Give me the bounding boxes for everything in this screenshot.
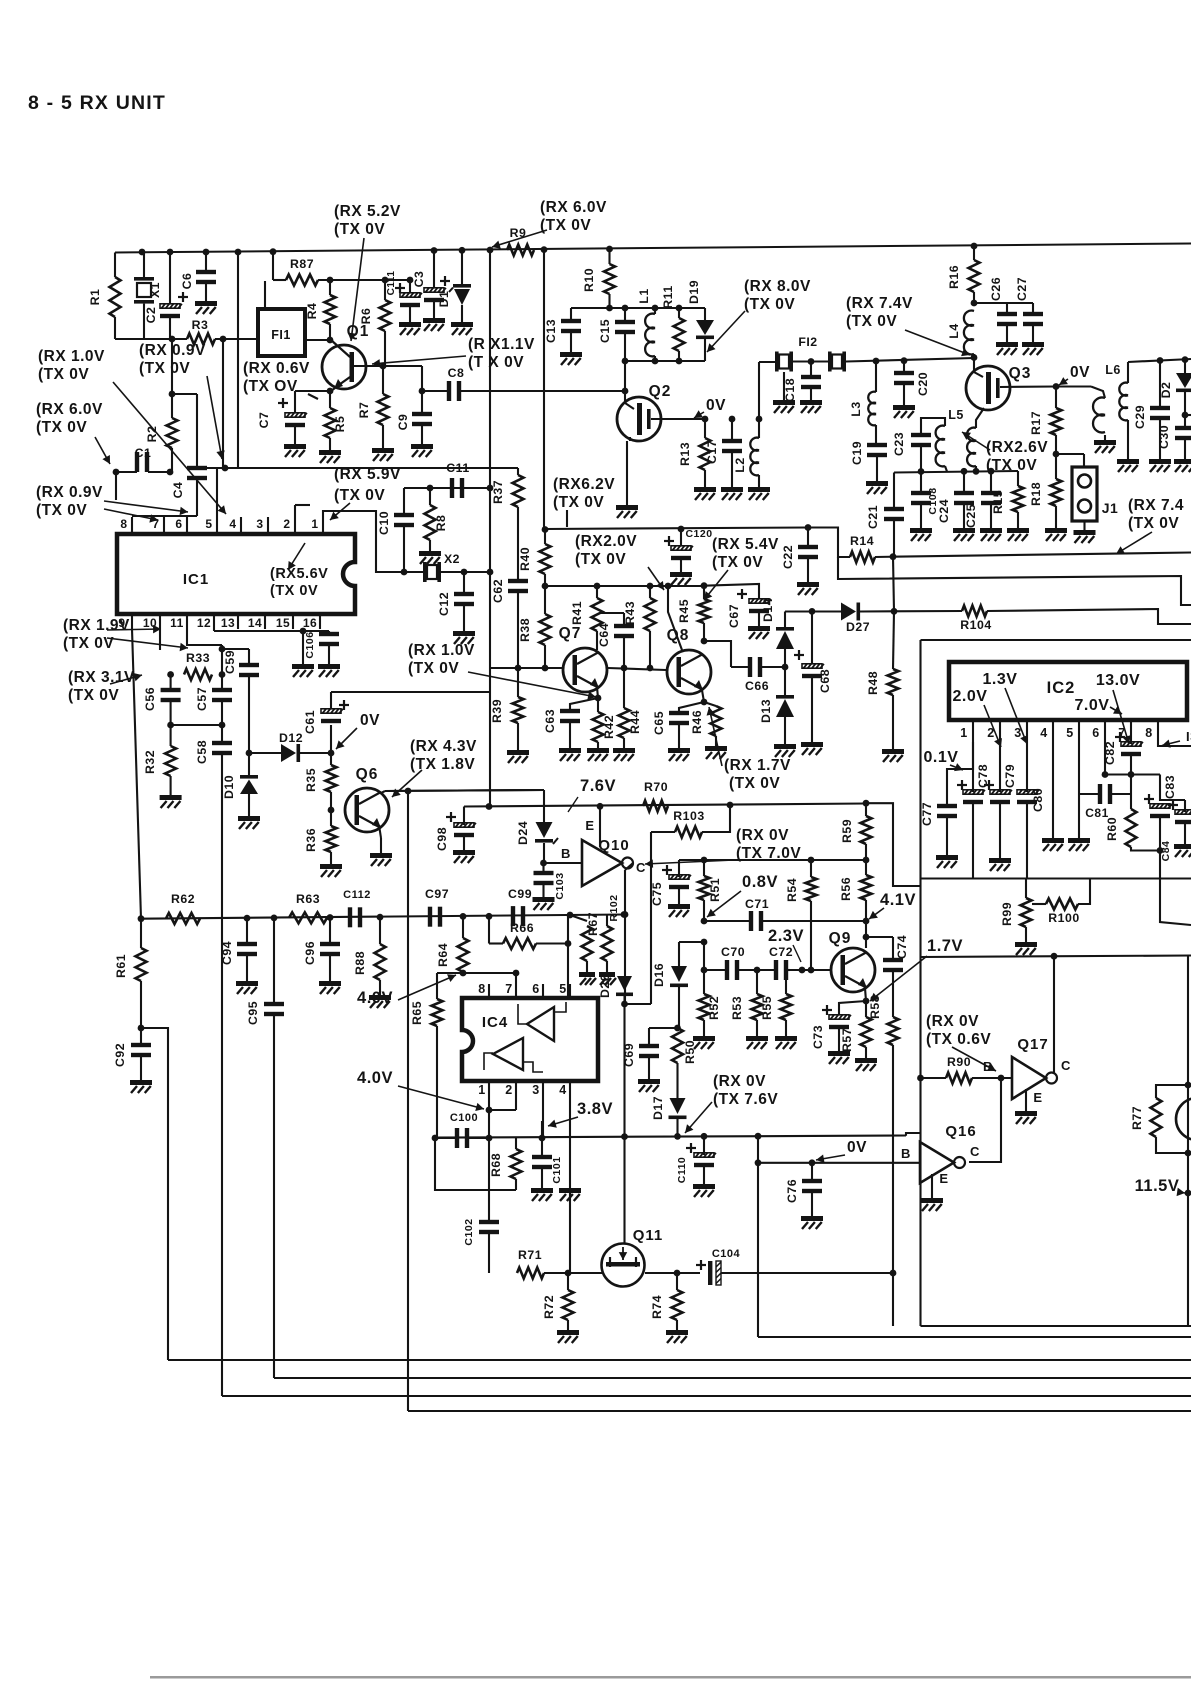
wire C66 feed — [704, 641, 731, 667]
svg-text:Q6: Q6 — [356, 766, 379, 783]
svg-text:R51: R51 — [708, 878, 722, 902]
capacitor C98 — [463, 807, 465, 826]
svg-text:R59: R59 — [840, 819, 854, 843]
capacitor C108 — [920, 472, 922, 494]
svg-text:R56: R56 — [839, 877, 853, 901]
node C-down mid — [622, 911, 629, 918]
svg-text:L1: L1 — [637, 288, 651, 303]
resistor R7 — [382, 366, 384, 394]
svg-text:R87: R87 — [290, 257, 314, 271]
svg-text:(RX 0V: (RX 0V — [926, 1013, 979, 1030]
svg-text:3: 3 — [256, 517, 263, 531]
wire rail stub 238 — [237, 252, 239, 467]
node L1 top — [652, 305, 659, 312]
capacitor C104 — [696, 1264, 706, 1266]
svg-text:L6: L6 — [1105, 363, 1121, 377]
svg-text:C106: C106 — [304, 631, 316, 658]
resistor R44 — [623, 668, 625, 708]
svg-text:(RX 1.0V: (RX 1.0V — [408, 642, 475, 659]
capacitor C111 — [407, 277, 414, 284]
svg-text:R88: R88 — [353, 951, 367, 975]
capacitor C29 — [1157, 357, 1164, 364]
svg-text:C4: C4 — [171, 482, 185, 499]
svg-text:0V: 0V — [706, 397, 726, 414]
capacitor C4 — [196, 394, 198, 468]
node C66 corner — [701, 638, 708, 645]
filter FI1 — [258, 309, 305, 356]
node Q7 emitter — [595, 695, 602, 702]
wire Q11 right — [645, 1272, 700, 1274]
svg-text:R103: R103 — [673, 809, 704, 823]
node R54 bottom — [808, 967, 815, 974]
capacitor C96 — [329, 918, 331, 945]
svg-text:C82: C82 — [1103, 741, 1117, 765]
svg-text:(RX 1.9V: (RX 1.9V — [63, 617, 130, 634]
svg-text:C6: C6 — [180, 273, 194, 290]
svg-text:IC2: IC2 — [1047, 679, 1076, 697]
IC IC4 box — [462, 998, 598, 1081]
capacitor C67 — [703, 584, 705, 587]
wire Q3 drain — [976, 408, 984, 428]
resistor R88 — [379, 917, 381, 944]
wire long bus 878 — [921, 877, 1191, 879]
transistor Q6 — [345, 788, 389, 832]
svg-text:(RX 7.4: (RX 7.4 — [1128, 497, 1184, 514]
svg-text:6: 6 — [532, 982, 539, 996]
node R45 top — [701, 582, 708, 589]
pin IC2-6 — [1104, 720, 1106, 742]
capacitor C75 — [678, 860, 680, 877]
resistor R102 — [606, 915, 608, 926]
capacitor C26 — [1006, 303, 1008, 314]
svg-text:8: 8 — [120, 517, 127, 531]
wire bus956 — [921, 956, 1191, 958]
wire pin4 gnd — [1052, 742, 1054, 838]
transistor Q1 — [322, 345, 366, 389]
wire bottom bus 1337 — [758, 1336, 1191, 1338]
resistor R2 — [171, 339, 173, 418]
svg-text:Q2: Q2 — [649, 383, 672, 400]
inductor L6 — [1119, 383, 1128, 396]
svg-text:(RX 0.9V: (RX 0.9V — [36, 484, 103, 501]
filter FI2 crystal B — [828, 352, 832, 372]
resistor R18 — [1055, 454, 1057, 479]
resistor R41 — [596, 586, 598, 598]
node Q3 gate — [971, 354, 978, 361]
svg-text:C3: C3 — [412, 271, 426, 288]
pin IC2-8 — [1157, 720, 1159, 742]
wire bottom bus 1326 — [921, 1325, 1191, 1327]
node 7.6V branch — [405, 788, 412, 795]
svg-text:C83: C83 — [1163, 775, 1177, 799]
wire C71 bus — [704, 920, 751, 922]
pin IC4-bot 3 — [542, 1081, 544, 1096]
node rail junction — [431, 247, 438, 254]
svg-text:Q16: Q16 — [945, 1123, 976, 1140]
svg-text:C19: C19 — [850, 441, 864, 465]
node 490-572 — [487, 569, 494, 576]
svg-text:14: 14 — [248, 616, 262, 630]
node R4 top — [327, 277, 334, 284]
wire pin1 jog — [488, 1096, 490, 1110]
node R8 top — [427, 485, 434, 492]
pin IC2-5 — [1078, 720, 1080, 742]
svg-text:C111: C111 — [386, 271, 397, 296]
svg-text:C99: C99 — [508, 887, 532, 901]
wire x758 vertical — [757, 1136, 759, 1337]
node C66 right — [782, 664, 789, 671]
node rail junction — [139, 249, 146, 256]
node R88 top — [377, 914, 384, 921]
node R41 top — [594, 583, 601, 590]
inductor L6 hang — [1093, 397, 1105, 415]
capacitor C9 — [421, 366, 423, 414]
node R56 top — [863, 857, 870, 864]
node C59 tap — [219, 646, 226, 653]
capacitor C62 — [508, 579, 528, 583]
wire S jog — [906, 1133, 921, 1136]
svg-text:Q3: Q3 — [1009, 365, 1032, 382]
pin IC1-top 3 — [267, 517, 269, 534]
pin IC1-top 7 — [163, 517, 165, 534]
svg-text:13: 13 — [221, 616, 235, 630]
svg-text:L4: L4 — [947, 323, 961, 338]
svg-text:C79: C79 — [1003, 764, 1017, 788]
capacitor C80 — [1026, 742, 1028, 792]
svg-text:R5: R5 — [333, 416, 347, 433]
svg-text:5: 5 — [559, 982, 566, 996]
svg-text:C104: C104 — [712, 1248, 741, 1260]
svg-text:15: 15 — [276, 616, 290, 630]
wire corner-168 — [141, 1028, 168, 1360]
wire C95 long vertical — [273, 1016, 275, 1378]
node bus918 end — [621, 911, 628, 918]
crystal X1 — [143, 252, 145, 277]
crystal X2 — [423, 562, 427, 582]
node Q10 B — [540, 860, 547, 867]
resistor R58 — [888, 1017, 899, 1045]
wire Q17 C up — [1053, 956, 1055, 1073]
svg-text:4: 4 — [1040, 726, 1047, 740]
node bus-964 — [961, 468, 968, 475]
capacitor C102 — [488, 1138, 490, 1222]
pin IC1-bot 12 — [213, 614, 215, 629]
capacitor C95 — [273, 918, 275, 1004]
node rail junction — [203, 249, 210, 256]
resistor R9 — [507, 245, 534, 256]
svg-text:7.6V: 7.6V — [580, 777, 616, 795]
svg-text:D27: D27 — [846, 620, 870, 634]
svg-text:8 - 5 RX UNIT: 8 - 5 RX UNIT — [28, 92, 166, 114]
pin IC1-top 8 — [131, 517, 133, 534]
resistor R53 — [756, 970, 758, 994]
wire Q8 emitter — [702, 690, 704, 702]
node Q8 emitter — [701, 699, 708, 706]
svg-text:C24: C24 — [937, 499, 951, 523]
node pin7 join — [1128, 771, 1135, 778]
pin IC2-3 — [1026, 720, 1028, 742]
wire C11 bus — [404, 487, 490, 489]
svg-text:13.0V: 13.0V — [1096, 672, 1140, 689]
capacitor C72 — [774, 960, 778, 980]
resistor R16 — [973, 246, 975, 260]
svg-text:(TX 7.6V: (TX 7.6V — [713, 1091, 778, 1108]
svg-text:(TX 0V: (TX 0V — [139, 360, 190, 377]
svg-text:2: 2 — [987, 726, 994, 740]
svg-text:(TX 1.8V: (TX 1.8V — [410, 756, 475, 773]
wire Q11 left — [568, 1272, 602, 1274]
node R43 top — [647, 583, 654, 590]
wire bus918 — [141, 915, 624, 919]
svg-text:1: 1 — [960, 726, 967, 740]
svg-text:R1: R1 — [88, 289, 102, 306]
svg-text:0V: 0V — [847, 1139, 867, 1156]
svg-text:R33: R33 — [186, 651, 210, 665]
pin IC1-top 1 — [322, 517, 324, 534]
svg-text:C1: C1 — [135, 446, 152, 460]
svg-text:R45: R45 — [677, 599, 691, 623]
svg-text:R104: R104 — [960, 618, 991, 632]
svg-text:4.0V: 4.0V — [357, 989, 393, 1007]
svg-text:3: 3 — [1014, 726, 1021, 740]
svg-text:(TX 0V: (TX 0V — [1128, 515, 1179, 532]
pin IC4-bot 1 — [488, 1081, 490, 1096]
node C95 top — [271, 915, 278, 922]
svg-text:IC1: IC1 — [183, 571, 209, 588]
node R70 right — [727, 802, 734, 809]
svg-text:(TX 0V: (TX 0V — [729, 775, 780, 792]
capacitor C97 — [428, 907, 432, 927]
svg-text:2.0V: 2.0V — [953, 688, 988, 705]
wire rail806 — [464, 804, 866, 807]
capacitor C17 — [731, 419, 733, 441]
capacitor C11 — [450, 478, 454, 498]
pin IC2-2 — [999, 720, 1001, 742]
svg-text:4: 4 — [559, 1083, 566, 1097]
capacitor C64 — [623, 613, 625, 626]
capacitor C20 — [901, 357, 908, 364]
node R3 right — [220, 336, 227, 343]
svg-text:C: C — [970, 1144, 980, 1159]
wire D27 bus — [785, 610, 841, 612]
resistor R51 — [703, 860, 705, 876]
node tank bot R11 — [676, 358, 683, 365]
resistor R70 — [643, 801, 668, 812]
diode D19 — [704, 308, 706, 320]
svg-text:R13: R13 — [678, 442, 692, 466]
resistor R72 — [567, 1273, 569, 1290]
wire pin4 down — [569, 1096, 571, 1188]
wire right box vertical — [1187, 956, 1189, 1327]
svg-text:C96: C96 — [303, 941, 317, 965]
svg-text:0V: 0V — [360, 712, 380, 729]
pin IC1-bot 16 — [319, 614, 321, 629]
svg-text:E: E — [585, 818, 594, 833]
svg-text:C29: C29 — [1133, 405, 1147, 429]
wire Q9 emitter — [865, 988, 866, 1001]
svg-text:C18: C18 — [783, 378, 797, 402]
svg-text:(TX 0V: (TX 0V — [575, 551, 626, 568]
capacitor C30 — [1175, 426, 1191, 430]
transistor Q11 fet — [602, 1244, 645, 1287]
wire R59 top jog — [866, 803, 921, 886]
wire Q7 collector — [596, 646, 598, 650]
svg-text:C71: C71 — [745, 897, 769, 911]
svg-text:C22: C22 — [781, 545, 795, 569]
wire Q2 drain right — [651, 418, 705, 420]
resistor R65 — [436, 973, 438, 999]
wire pin3 down — [542, 1096, 544, 1138]
resistor R13 — [704, 419, 706, 438]
svg-text:R8: R8 — [434, 515, 448, 532]
node rail junction — [541, 246, 548, 253]
resistor R62 — [166, 913, 200, 924]
svg-text:(TX 0V: (TX 0V — [553, 494, 604, 511]
inductor L4 — [964, 311, 974, 326]
pin IC1-top 5 — [216, 517, 218, 534]
svg-text:R53: R53 — [730, 996, 744, 1020]
pin IC2-7 — [1130, 720, 1132, 742]
svg-text:R11: R11 — [661, 285, 675, 308]
wire Q1 collector — [354, 365, 422, 367]
wire pin11 route — [187, 629, 222, 645]
svg-text:D2: D2 — [1159, 382, 1173, 399]
svg-text:(R X1.1V: (R X1.1V — [468, 336, 535, 353]
node R13 top — [702, 416, 709, 423]
node Q17 B — [998, 1075, 1005, 1082]
node bus-975 — [973, 468, 980, 475]
svg-text:R57: R57 — [840, 1028, 854, 1052]
node R66 branch — [486, 913, 493, 920]
svg-text:C11: C11 — [446, 461, 469, 475]
capacitor C65 — [679, 702, 704, 713]
resistor R32 — [170, 725, 172, 746]
node R50 top — [674, 1025, 681, 1032]
node R71 right — [565, 1270, 572, 1277]
svg-text:C62: C62 — [491, 579, 505, 603]
node Q2 gate — [622, 388, 629, 395]
diode D14 — [784, 612, 786, 630]
capacitor C110 — [703, 1136, 705, 1155]
svg-text:0.8V: 0.8V — [742, 873, 778, 891]
svg-text:(RX 3.1V: (RX 3.1V — [68, 669, 135, 686]
wire C61 top bus — [331, 691, 490, 693]
svg-text:4.0V: 4.0V — [357, 1069, 393, 1087]
capacitor C63 — [570, 698, 598, 711]
svg-text:C17: C17 — [705, 440, 719, 464]
node R51 bottom — [701, 918, 708, 925]
svg-text:FI1: FI1 — [271, 328, 291, 342]
resistor R11 — [678, 308, 680, 318]
pin IC1-top 4 — [240, 517, 242, 534]
svg-text:R64: R64 — [436, 943, 450, 967]
svg-text:(TX 0V: (TX 0V — [63, 635, 114, 652]
wire pin1 route — [323, 511, 424, 572]
svg-text:4: 4 — [229, 517, 236, 531]
svg-text:(TX 0V: (TX 0V — [334, 487, 385, 504]
node C22 top — [805, 524, 812, 531]
node bus-991 — [988, 468, 995, 475]
svg-text:R65: R65 — [410, 1001, 424, 1025]
capacitor C6 — [205, 252, 207, 272]
node C68 top — [809, 608, 816, 615]
capacitor C24 — [963, 471, 965, 493]
node C1 right — [167, 469, 174, 476]
node R90 left — [917, 1075, 924, 1082]
svg-text:C101: C101 — [551, 1156, 563, 1183]
svg-text:L5: L5 — [948, 408, 964, 422]
svg-text:R67: R67 — [586, 912, 600, 936]
svg-text:(RX 6.0V: (RX 6.0V — [36, 401, 103, 418]
svg-text:R44: R44 — [628, 710, 642, 734]
wire Q9 base bus — [790, 969, 830, 971]
wire pin8 13V — [1158, 742, 1191, 746]
svg-text:(TX 0V: (TX 0V — [270, 583, 318, 599]
svg-text:R48: R48 — [866, 671, 880, 695]
svg-text:C65: C65 — [652, 711, 666, 735]
svg-text:(RX 5.9V: (RX 5.9V — [334, 466, 401, 483]
svg-text:6: 6 — [1092, 726, 1099, 740]
svg-text:(RX 0V: (RX 0V — [713, 1073, 766, 1090]
node Q9 emitter — [863, 998, 870, 1005]
svg-text:(RX 0.6V: (RX 0.6V — [243, 360, 310, 377]
node bus1137-624 — [621, 1133, 628, 1140]
node rail junction — [487, 247, 494, 254]
svg-text:C98: C98 — [435, 827, 449, 851]
svg-text:C92: C92 — [113, 1043, 127, 1067]
pin IC4-top 8 — [488, 984, 490, 998]
capacitor C21 — [893, 473, 895, 510]
capacitor C27 — [1032, 303, 1034, 314]
wire to hang coil — [1056, 385, 1091, 387]
wire C75 top bus — [679, 859, 866, 861]
resistor R10 — [608, 249, 610, 264]
wire pin5 up — [216, 468, 218, 517]
capacitor C69 — [649, 1027, 678, 1029]
svg-text:(RX 5.2V: (RX 5.2V — [334, 203, 401, 220]
wire Q2 source gnd — [629, 437, 631, 441]
svg-text:C66: C66 — [745, 679, 769, 693]
wire pin2 stub — [294, 505, 296, 517]
svg-text:R3: R3 — [192, 318, 209, 332]
node C70 left — [701, 967, 708, 974]
node Q17 C node — [1051, 953, 1058, 960]
wire J1 gnd bus — [893, 553, 1191, 557]
capacitor C83 — [1150, 804, 1170, 808]
wire bus 468 — [197, 467, 518, 469]
node R51 top — [701, 857, 708, 864]
svg-text:C10: C10 — [377, 511, 391, 535]
node tank top — [606, 305, 613, 312]
node D2 bottom — [1182, 412, 1189, 419]
capacitor C8 — [422, 390, 449, 392]
resistor R59 — [863, 800, 870, 807]
svg-text:C76: C76 — [785, 1179, 799, 1203]
svg-text:C72: C72 — [769, 945, 793, 959]
resistor R39 — [517, 668, 519, 697]
resistor R71 — [517, 1268, 544, 1279]
node D12 right — [328, 750, 335, 757]
svg-text:C30: C30 — [1157, 425, 1171, 449]
wire FI2 feed — [758, 362, 760, 419]
node R33 right — [219, 671, 226, 678]
svg-text:C61: C61 — [303, 710, 317, 734]
node R67 branch — [567, 912, 574, 919]
node C101 top — [539, 1135, 546, 1142]
capacitor C92 — [140, 1028, 142, 1045]
svg-text:C7: C7 — [257, 412, 271, 429]
capacitor C13 — [570, 308, 572, 321]
